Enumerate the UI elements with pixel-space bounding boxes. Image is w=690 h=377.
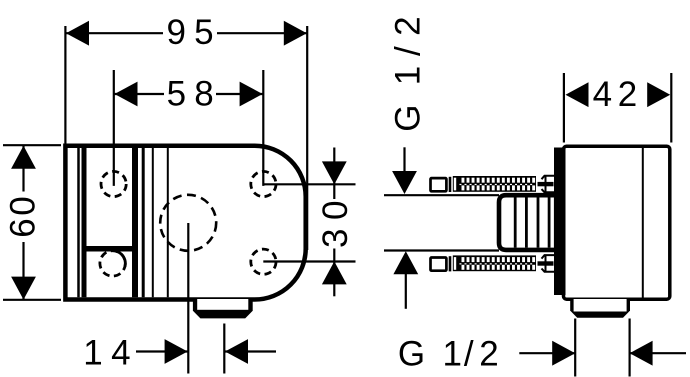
svg-text:5: 5 (167, 75, 186, 114)
svg-text:0: 0 (316, 201, 355, 220)
svg-text:2: 2 (618, 75, 637, 114)
svg-text:8: 8 (194, 75, 213, 114)
svg-text:/: / (388, 46, 427, 56)
svg-text:3: 3 (316, 229, 355, 248)
svg-text:5: 5 (194, 13, 213, 52)
svg-text:0: 0 (4, 196, 43, 215)
svg-text:/: / (464, 334, 474, 373)
svg-text:1: 1 (388, 66, 427, 85)
svg-text:G: G (388, 105, 427, 132)
svg-text:1: 1 (442, 334, 461, 373)
svg-text:G: G (398, 334, 425, 373)
svg-text:2: 2 (388, 16, 427, 35)
svg-text:4: 4 (111, 334, 130, 373)
svg-text:1: 1 (83, 334, 102, 373)
svg-text:2: 2 (479, 334, 498, 373)
svg-text:6: 6 (4, 218, 43, 237)
svg-text:9: 9 (166, 13, 185, 52)
svg-text:4: 4 (593, 75, 612, 114)
